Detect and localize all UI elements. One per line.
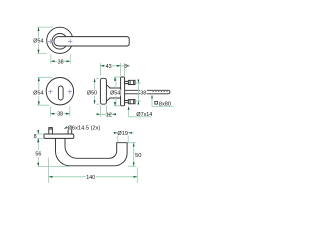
svg-text:Ø50: Ø50: [87, 91, 97, 97]
svg-text:43: 43: [106, 64, 112, 70]
svg-text:8x80: 8x80: [159, 102, 171, 108]
svg-text:8: 8: [34, 134, 37, 140]
svg-text:38: 38: [140, 90, 146, 96]
svg-text:56: 56: [35, 152, 41, 158]
svg-text:Ø19: Ø19: [117, 131, 128, 137]
svg-text:Ø54: Ø54: [33, 39, 43, 45]
svg-text:Ø6x14.5 (2x): Ø6x14.5 (2x): [68, 125, 101, 131]
svg-text:Ø54: Ø54: [33, 91, 43, 97]
svg-text:38: 38: [58, 59, 64, 65]
svg-text:8: 8: [124, 64, 127, 70]
svg-text:Ø7x14: Ø7x14: [136, 112, 152, 118]
svg-text:12: 12: [106, 112, 112, 118]
svg-text:140: 140: [86, 175, 95, 181]
svg-text:Ø54: Ø54: [110, 91, 120, 97]
svg-text:38: 38: [57, 112, 63, 118]
svg-text:50: 50: [135, 153, 141, 159]
